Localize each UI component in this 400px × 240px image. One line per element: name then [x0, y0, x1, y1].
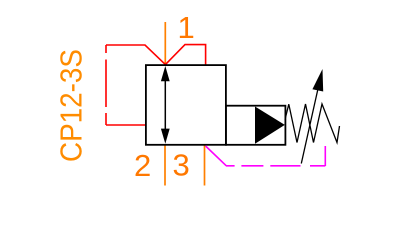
- adjustment arrow shaft: [301, 86, 318, 164]
- pilot line red left vertical (dashed): [105, 45, 107, 125]
- adjustment arrow head: [312, 69, 323, 92]
- valve body (main square): [146, 65, 226, 145]
- port 1 line (top): [164, 22, 166, 65]
- pilot line red bottom horizontal: [106, 124, 146, 126]
- drain pilot line magenta dashes: [226, 165, 325, 167]
- drain pilot line magenta diagonal: [206, 146, 227, 166]
- svg-text:3: 3: [173, 148, 190, 183]
- svg-text:CP12-3S: CP12-3S: [54, 49, 89, 162]
- pilot line red right branch: [165, 45, 205, 65]
- port 3 line (bottom right): [204, 145, 206, 186]
- port 2 line (bottom left): [164, 145, 166, 186]
- flow arrow (double headed, vertical): [161, 66, 170, 144]
- check/solenoid box: [226, 106, 286, 145]
- pilot line red top-left horizontal: [106, 45, 165, 65]
- check valve triangle: [255, 107, 285, 144]
- spring: [285, 104, 340, 143]
- svg-text:1: 1: [178, 10, 195, 45]
- drain pilot line magenta right vertical: [324, 146, 326, 166]
- svg-text:2: 2: [134, 148, 151, 183]
